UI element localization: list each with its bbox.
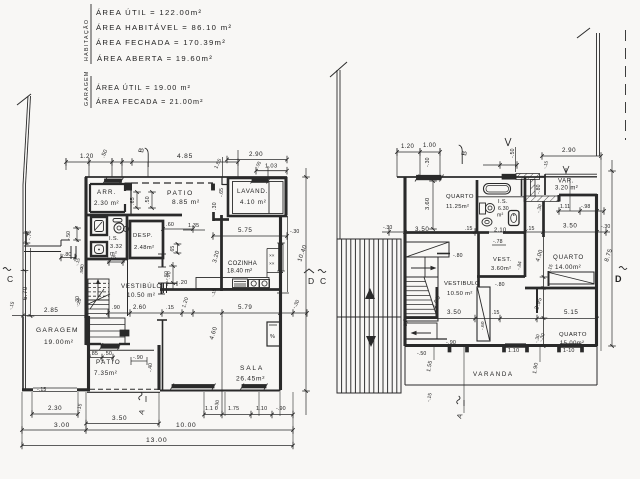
patio top edge line bbox=[87, 349, 154, 351]
sala fireplace/heater bbox=[267, 322, 280, 346]
svg-text:3.60m²: 3.60m² bbox=[491, 266, 511, 272]
svg-text:C: C bbox=[7, 274, 13, 284]
lot boundary left (double line, slash tip) bbox=[23, 96, 28, 185]
lavanderia inner tub line bbox=[233, 182, 284, 214]
patio lower right wall bbox=[157, 345, 160, 390]
dim 5.75 cozinha bbox=[212, 235, 287, 237]
svg-text:GARAGEM: GARAGEM bbox=[84, 71, 90, 106]
quarto14 left wall bbox=[542, 201, 545, 237]
interior stair arrow up bbox=[411, 267, 434, 269]
quarto1 bottom wall bbox=[405, 231, 477, 234]
section mark A bottom left plan bbox=[139, 392, 143, 400]
cozinha window right wall bbox=[278, 243, 280, 271]
svg-text:1.00: 1.00 bbox=[423, 143, 437, 149]
svg-text:-.80: -.80 bbox=[453, 253, 463, 259]
varanda outline bbox=[404, 346, 406, 385]
svg-text:.60: .60 bbox=[166, 222, 174, 228]
bathtub platform edge bbox=[478, 196, 525, 198]
vestibulo-cozinha bottom wall bbox=[160, 288, 281, 291]
svg-text:3.20 m²: 3.20 m² bbox=[555, 186, 578, 192]
stair dark tread bar bbox=[120, 330, 129, 336]
right plan outer wall bottom bbox=[405, 344, 597, 347]
svg-text:-.80: -.80 bbox=[62, 252, 71, 258]
garage bottom wall segment left bbox=[22, 388, 33, 391]
var dim 1.11 .98 bbox=[556, 210, 604, 212]
svg-text:1.10: 1.10 bbox=[508, 348, 519, 354]
left plan middle dim row y=313 bbox=[108, 312, 307, 314]
svg-text:COZINHA: COZINHA bbox=[228, 261, 257, 267]
left plan outer wall left bbox=[84, 177, 87, 345]
cozinha-vestibulo wall bbox=[220, 215, 223, 291]
bottom dim 13.00 bbox=[22, 445, 293, 447]
i.s. sink bbox=[480, 203, 486, 214]
svg-text:ÁREA ÚTIL = 122.00m²: ÁREA ÚTIL = 122.00m² bbox=[96, 8, 202, 17]
arr/patio corner wall block bbox=[125, 183, 132, 190]
stair landing box bbox=[88, 318, 125, 344]
svg-text:D: D bbox=[615, 274, 622, 284]
i.s. corner basin bbox=[114, 223, 124, 233]
i.s. room right wall bbox=[126, 215, 129, 260]
svg-text:1.11: 1.11 bbox=[560, 204, 570, 210]
svg-text:2.90: 2.90 bbox=[562, 147, 576, 154]
interior stair landing box bbox=[424, 257, 426, 277]
arr room walls bbox=[90, 183, 125, 185]
svg-text:4.10 m²: 4.10 m² bbox=[240, 199, 267, 206]
svg-text:ÁREA FECHADA = 170.39m²: ÁREA FECHADA = 170.39m² bbox=[96, 38, 226, 47]
svg-text:.50: .50 bbox=[79, 267, 84, 274]
dim 4.00 2.95 vertical bbox=[540, 276, 548, 278]
svg-text:1.75: 1.75 bbox=[228, 406, 239, 412]
section mark A bottom right plan bbox=[457, 396, 461, 404]
section mark B right plan bbox=[459, 145, 463, 164]
stair enclosure upper (dashed treads) bbox=[88, 279, 109, 300]
desp door jamb stub bbox=[162, 254, 164, 267]
svg-text:.20: .20 bbox=[179, 280, 187, 286]
dim 3.60 vertical quarto1 bbox=[432, 181, 434, 229]
svg-text:6.70: 6.70 bbox=[23, 286, 29, 300]
i.s. soap shelf bbox=[113, 219, 122, 223]
svg-text:15.00m²: 15.00m² bbox=[560, 341, 584, 347]
dim line 4.60 vertical bbox=[221, 316, 223, 413]
svg-text:ÁREA ÚTIL = 19.00 m²: ÁREA ÚTIL = 19.00 m² bbox=[96, 83, 191, 92]
svg-text:%: % bbox=[270, 334, 275, 340]
kitchen/patio corner jog wall bbox=[212, 212, 215, 221]
patio left wall bbox=[130, 183, 132, 215]
bottom dim 3.50 bbox=[86, 423, 159, 425]
dim 2.90 top right bbox=[542, 155, 601, 157]
svg-text:-.40: -.40 bbox=[148, 363, 154, 372]
lot boundary right (double, slash tip) bbox=[596, 33, 598, 156]
svg-text:.15: .15 bbox=[527, 226, 535, 232]
desp room walls bbox=[130, 221, 163, 258]
i.s. bidet bbox=[509, 211, 520, 226]
bottom window 2 (1.10) bbox=[560, 343, 581, 345]
vestibulo bottom wall bbox=[405, 316, 437, 319]
svg-text:.90: .90 bbox=[112, 305, 120, 311]
kitchen counter bbox=[196, 278, 269, 289]
svg-text:-.50: -.50 bbox=[417, 351, 426, 357]
left plan outer wall right upper (lavand) bbox=[284, 177, 287, 215]
svg-text:.15: .15 bbox=[465, 226, 473, 232]
i.s. bottom wall (door gap) bbox=[477, 231, 489, 234]
hatched duct vertical strip bbox=[531, 180, 536, 197]
var balcony top edge bbox=[545, 173, 597, 175]
interior stair enclosure bbox=[406, 257, 439, 321]
svg-text:ÁREA ABERTA = 19.60m²: ÁREA ABERTA = 19.60m² bbox=[97, 54, 213, 63]
extension lines bottom bbox=[31, 392, 33, 416]
dim row 3.50 5.15 y=318 bbox=[405, 318, 597, 320]
svg-text:D: D bbox=[308, 276, 314, 286]
svg-text:-.90: -.90 bbox=[446, 340, 456, 346]
svg-text:.50: .50 bbox=[104, 351, 112, 357]
dim .50 vertical patio bbox=[151, 192, 153, 208]
svg-text:3.50: 3.50 bbox=[563, 223, 577, 230]
svg-text:-.30: -.30 bbox=[290, 229, 299, 235]
stair direction diagonal bbox=[86, 294, 110, 305]
bottom dim row 3.00 / 10.00 bbox=[22, 429, 293, 431]
right plan outer wall right bbox=[595, 194, 598, 346]
middle wall y=215 left segment bbox=[85, 214, 182, 217]
i.s. sink bbox=[91, 217, 107, 235]
svg-text:-.30: -.30 bbox=[425, 157, 431, 167]
corridor wardrobe with diagonal bbox=[406, 242, 449, 257]
bathtub bbox=[484, 184, 511, 195]
svg-text:VEST.: VEST. bbox=[493, 257, 512, 263]
svg-text:26.45m²: 26.45m² bbox=[236, 376, 265, 383]
svg-text:QUARTO: QUARTO bbox=[553, 254, 584, 261]
svg-text:-.80: -.80 bbox=[536, 184, 542, 194]
svg-text:3.50: 3.50 bbox=[112, 415, 127, 422]
external stair hatch lines bbox=[341, 239, 343, 393]
window LAVAND top wall (sill bar) bbox=[252, 179, 268, 182]
svg-text:1.10: 1.10 bbox=[256, 406, 267, 412]
i.s. toilet bbox=[482, 218, 492, 226]
kitchen stove grill bbox=[233, 279, 248, 288]
svg-text:7.35m²: 7.35m² bbox=[94, 370, 117, 377]
svg-text:C: C bbox=[320, 276, 326, 286]
corridor lower walls bbox=[405, 338, 447, 340]
svg-text:ÁREA FECADA = 21.00m²: ÁREA FECADA = 21.00m² bbox=[96, 97, 204, 106]
vertical dim 10.40 right of plan bbox=[305, 168, 307, 415]
header area-statistics text block bbox=[83, 4, 232, 108]
svg-text:6.30: 6.30 bbox=[498, 206, 509, 212]
patio roof dashed line bbox=[131, 182, 213, 184]
svg-text:.50: .50 bbox=[145, 196, 151, 204]
svg-text:××: ×× bbox=[269, 261, 275, 267]
quarto14 left rail thin bbox=[543, 237, 545, 346]
svg-text:VARANDA: VARANDA bbox=[473, 371, 514, 378]
svg-text:2.60: 2.60 bbox=[133, 305, 147, 311]
svg-text:-.90: -.90 bbox=[276, 406, 286, 412]
svg-text:m²: m² bbox=[497, 213, 504, 219]
dim .50 left of i.s. bbox=[76, 226, 78, 242]
quarto1 top window (sill bar) bbox=[417, 175, 442, 180]
kitchen burner 2 bbox=[260, 280, 270, 288]
duct void walls bbox=[521, 179, 523, 196]
dim .20 vestibulo top bbox=[167, 283, 177, 285]
svg-text:10.00: 10.00 bbox=[176, 422, 197, 429]
svg-text:GARAGEM: GARAGEM bbox=[36, 327, 79, 334]
varanda door jambs (.90) bbox=[448, 345, 451, 352]
quarto14 bottom wall bbox=[525, 287, 597, 290]
svg-text:1.03: 1.03 bbox=[265, 164, 277, 170]
svg-text:PATIO: PATIO bbox=[167, 190, 194, 197]
window ARR top wall (sill bar) bbox=[105, 179, 122, 182]
svg-text:1.20: 1.20 bbox=[401, 144, 415, 150]
var bottom wall bbox=[559, 194, 597, 197]
section letter C far left bbox=[3, 268, 11, 271]
svg-text:VAR.: VAR. bbox=[558, 179, 574, 185]
external stair down arrow bbox=[366, 336, 376, 347]
interior stair lower arrow bbox=[413, 332, 431, 334]
external stair hatched area border bbox=[337, 239, 401, 393]
svg-text:-.75: -.75 bbox=[27, 230, 33, 240]
svg-text:HABITAÇÃO: HABITAÇÃO bbox=[83, 19, 90, 61]
i.s. toilet bbox=[91, 242, 107, 256]
dim extension line right x=601 bbox=[600, 158, 602, 351]
left plan outer wall top bbox=[85, 176, 287, 178]
varanda extension line bbox=[463, 346, 465, 413]
svg-text:-.50: -.50 bbox=[66, 231, 72, 240]
svg-text:.65: .65 bbox=[170, 246, 176, 253]
interior stair diagonal cut bbox=[424, 277, 438, 320]
garage bottom wall segment right / patio corner bbox=[77, 388, 90, 391]
svg-text:ÁREA HABITÁVEL = 86.10 m²: ÁREA HABITÁVEL = 86.10 m² bbox=[96, 23, 232, 32]
var dim extension line bbox=[569, 178, 571, 211]
svg-text:10.50 m²: 10.50 m² bbox=[127, 292, 155, 299]
svg-text:8.85 m²: 8.85 m² bbox=[172, 199, 200, 206]
extension lines above left plan bbox=[65, 158, 67, 170]
svg-text:VESTIBULO: VESTIBULO bbox=[444, 281, 480, 287]
dim .65 vertical patio left bbox=[136, 192, 138, 208]
svg-text:1.20: 1.20 bbox=[80, 153, 94, 160]
left plan outer wall bottom (sala) bbox=[160, 390, 281, 392]
section mark B left plan bbox=[145, 148, 149, 167]
svg-text:1.35: 1.35 bbox=[188, 223, 199, 229]
side passage walls bbox=[24, 245, 61, 247]
sala bottom window 2 (sill bar) bbox=[242, 385, 266, 388]
svg-text:1-10: 1-10 bbox=[563, 348, 575, 354]
i.s. room bottom wall bbox=[86, 258, 127, 261]
svg-text:.15: .15 bbox=[492, 310, 500, 316]
dim 6.70 vertical lot bbox=[30, 248, 32, 316]
svg-text:QUARTO: QUARTO bbox=[559, 332, 587, 338]
vestibulo door wall stub bbox=[163, 283, 165, 293]
stair up arrow bbox=[97, 281, 99, 298]
quarto14 wardrobe bbox=[549, 272, 594, 284]
svg-text:-.15: -.15 bbox=[37, 387, 46, 393]
svg-text:3.60: 3.60 bbox=[425, 198, 431, 210]
lavand door nub bbox=[212, 184, 215, 190]
svg-text:I.S.: I.S. bbox=[498, 199, 508, 205]
lavand top-left corner step bbox=[221, 177, 223, 185]
svg-text:2.48m²: 2.48m² bbox=[134, 245, 154, 251]
svg-text:2.90: 2.90 bbox=[249, 151, 263, 158]
svg-text:DESP.: DESP. bbox=[133, 233, 153, 239]
svg-text:4.85: 4.85 bbox=[177, 153, 193, 160]
svg-text:.65: .65 bbox=[130, 197, 136, 205]
svg-text:-.30: -.30 bbox=[383, 225, 392, 231]
external stair up arrow bbox=[365, 288, 375, 299]
i.s. top wall dark bar bbox=[502, 174, 516, 179]
section letter D middle bbox=[304, 269, 314, 273]
vest room walls bbox=[524, 233, 527, 277]
bottom dim row right: 1.10 1.75 1.10 .90 bbox=[204, 414, 293, 416]
svg-text:PATIO: PATIO bbox=[96, 359, 121, 366]
svg-text:LAVAND.: LAVAND. bbox=[237, 188, 268, 195]
svg-text:ARR.: ARR. bbox=[97, 189, 117, 196]
section letter C middle bbox=[318, 270, 326, 273]
i.s. door dim .75 bbox=[107, 261, 125, 263]
svg-text:3.50: 3.50 bbox=[447, 309, 461, 316]
svg-text:18.40 m²: 18.40 m² bbox=[227, 269, 252, 275]
svg-text:13.00: 13.00 bbox=[146, 437, 168, 444]
sala left wall bbox=[162, 320, 164, 390]
svg-text:-.30: -.30 bbox=[601, 224, 610, 230]
lavanderia walls bbox=[228, 178, 286, 216]
hatched duct top bbox=[516, 174, 540, 180]
svg-text:5.75: 5.75 bbox=[238, 227, 252, 234]
svg-text:2.85: 2.85 bbox=[44, 307, 58, 314]
svg-text:.30: .30 bbox=[212, 202, 218, 210]
patio lower bottom dashed edge bbox=[90, 388, 158, 390]
sala bottom window 1 (sill bar) bbox=[172, 385, 214, 388]
dim row below patio .60 1.35 bbox=[163, 228, 193, 230]
svg-text:QUARTO: QUARTO bbox=[446, 194, 474, 200]
svg-text:-.80: -.80 bbox=[495, 282, 505, 288]
small mark above i.s. bbox=[505, 138, 508, 146]
svg-text:-.50: -.50 bbox=[510, 148, 516, 158]
svg-text:-.90: -.90 bbox=[133, 355, 143, 361]
garage right wall bbox=[87, 316, 90, 390]
lot boundary right dashed bbox=[625, 30, 627, 140]
svg-text:-.98: -.98 bbox=[581, 204, 590, 210]
dim .50 i.s. top bbox=[500, 164, 517, 166]
svg-text:19.00m²: 19.00m² bbox=[44, 339, 74, 346]
dim .80 passage door bbox=[60, 257, 76, 259]
dim 8.75 vertical right bbox=[611, 160, 613, 346]
patio door sill bar bbox=[101, 344, 119, 348]
stair bottom wall to patio bbox=[86, 343, 101, 345]
extension line above duct bbox=[515, 147, 517, 172]
interior stair lower box bbox=[406, 323, 437, 339]
right plan outer wall left bbox=[403, 177, 406, 346]
svg-text:-.78: -.78 bbox=[493, 239, 503, 245]
left plan top dim row 1.20 .50 bbox=[66, 161, 132, 163]
svg-text:3.32: 3.32 bbox=[110, 244, 123, 250]
svg-text:14.00m²: 14.00m² bbox=[555, 264, 581, 271]
svg-text:3.50: 3.50 bbox=[415, 226, 429, 233]
right plan top dim 1.20 1.00 bbox=[397, 151, 440, 153]
svg-text:10.50 m²: 10.50 m² bbox=[447, 291, 473, 297]
svg-text:11.25m²: 11.25m² bbox=[446, 204, 469, 210]
dim 2.85 garage bbox=[12, 315, 86, 317]
svg-text:××: ×× bbox=[269, 253, 275, 259]
svg-text:-.65: -.65 bbox=[219, 188, 225, 197]
dim .65 vertical desp right bbox=[177, 243, 179, 254]
hatched duct lower bbox=[524, 196, 559, 202]
wall plane extension line x=287.5 bbox=[287, 216, 289, 292]
garage left wall thick bottom corner bbox=[22, 317, 24, 391]
svg-text:-.60: -.60 bbox=[480, 321, 486, 330]
right plan mid dim row y=229 bbox=[382, 231, 610, 233]
svg-text:SALA: SALA bbox=[240, 365, 264, 372]
lot boundary between plans (double, slash tip) bbox=[336, 70, 338, 239]
left plan outer wall right main bbox=[279, 215, 282, 390]
svg-text:I.S.: I.S. bbox=[109, 236, 119, 242]
dim .75 vertical passage bbox=[26, 231, 28, 245]
svg-text:2.10: 2.10 bbox=[494, 228, 506, 234]
bottom window 1 (1.10) bbox=[505, 343, 526, 345]
svg-text:.15: .15 bbox=[166, 305, 174, 311]
garage door (thin lines) bbox=[33, 387, 77, 389]
external stair mid landing line bbox=[337, 316, 401, 318]
tall cupboard with diagonal bbox=[477, 287, 490, 341]
i.s. left wall bbox=[476, 180, 479, 233]
svg-text:3.00: 3.00 bbox=[54, 422, 70, 429]
svg-text:5.79: 5.79 bbox=[238, 304, 252, 311]
bottom dim row 1: 2.30 bbox=[32, 413, 78, 415]
svg-text:.85: .85 bbox=[90, 351, 98, 357]
right plan outer wall top bbox=[397, 176, 545, 178]
kitchen burner 1 bbox=[249, 280, 260, 288]
kitchen pantry column bbox=[267, 248, 281, 250]
svg-text:2.30: 2.30 bbox=[48, 405, 62, 412]
lavanderia inner divider bbox=[268, 182, 270, 214]
i.s. right wall bbox=[524, 177, 527, 233]
vestibulo left boundary line bbox=[127, 260, 129, 316]
left plan top dim 2.90 bbox=[227, 159, 287, 161]
wa mark bbox=[563, 166, 566, 173]
svg-text:-.75: -.75 bbox=[107, 255, 116, 261]
dim line vertical x=173 bbox=[172, 262, 174, 289]
svg-text:5.15: 5.15 bbox=[564, 309, 578, 316]
stair solid treads bbox=[88, 300, 109, 318]
left plan top dim 4.85 bbox=[132, 161, 238, 163]
section letter D right bbox=[619, 267, 627, 270]
left plan top dim 1.03 .05 bbox=[256, 170, 288, 172]
svg-text:2.30 m²: 2.30 m² bbox=[94, 200, 119, 207]
